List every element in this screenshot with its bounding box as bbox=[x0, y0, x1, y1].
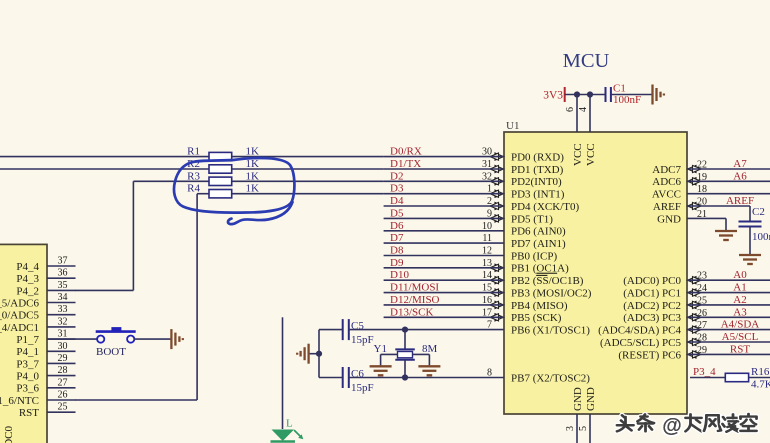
svg-text:35: 35 bbox=[58, 280, 68, 291]
svg-text:PD5 (T1): PD5 (T1) bbox=[511, 213, 553, 225]
svg-text:C5: C5 bbox=[351, 320, 364, 332]
svg-text:AREF: AREF bbox=[653, 201, 681, 213]
svg-text:D8: D8 bbox=[390, 245, 404, 257]
svg-text:4: 4 bbox=[578, 107, 589, 112]
svg-text:PB4 (MISO): PB4 (MISO) bbox=[511, 300, 568, 312]
svg-text:D13/SCK: D13/SCK bbox=[390, 306, 433, 318]
svg-text:25: 25 bbox=[58, 402, 68, 413]
svg-text:15pF: 15pF bbox=[351, 334, 374, 346]
svg-text:P1_6/NTC: P1_6/NTC bbox=[0, 395, 39, 407]
svg-text:PB6 (X1/TOSC1): PB6 (X1/TOSC1) bbox=[511, 325, 590, 337]
svg-text:30: 30 bbox=[58, 341, 68, 352]
svg-text:@: @ bbox=[662, 415, 682, 437]
svg-text:BOOT: BOOT bbox=[96, 346, 126, 358]
svg-text:AVCC: AVCC bbox=[652, 189, 681, 201]
svg-text:PD6 (AIN0): PD6 (AIN0) bbox=[511, 226, 566, 238]
svg-text:P1_5/ADC6: P1_5/ADC6 bbox=[0, 297, 39, 309]
svg-text:(ADC4/SDA) PC4: (ADC4/SDA) PC4 bbox=[598, 325, 681, 337]
svg-text:D10: D10 bbox=[390, 269, 409, 281]
svg-text:GND: GND bbox=[585, 387, 597, 411]
svg-text:PB2 (SS/OC1B): PB2 (SS/OC1B) bbox=[511, 275, 584, 287]
svg-text:PD7 (AIN1): PD7 (AIN1) bbox=[511, 238, 566, 250]
svg-text:P4_0: P4_0 bbox=[16, 371, 39, 383]
svg-text:32: 32 bbox=[58, 316, 68, 327]
svg-text:L: L bbox=[286, 418, 293, 430]
svg-text:PD2(INT0): PD2(INT0) bbox=[511, 176, 562, 188]
svg-text:PB5 (SCK): PB5 (SCK) bbox=[511, 312, 562, 324]
svg-text:D2: D2 bbox=[390, 170, 403, 182]
svg-text:P1_7: P1_7 bbox=[16, 334, 39, 346]
svg-text:RST: RST bbox=[19, 407, 39, 419]
svg-text:P3_7: P3_7 bbox=[16, 358, 39, 370]
svg-text:P4_4: P4_4 bbox=[16, 261, 39, 273]
svg-text:1K: 1K bbox=[246, 183, 260, 195]
svg-text:P4_3: P4_3 bbox=[16, 273, 39, 285]
svg-text:26: 26 bbox=[58, 390, 68, 401]
svg-text:5: 5 bbox=[578, 426, 589, 431]
svg-text:P1_4/ADC1: P1_4/ADC1 bbox=[0, 322, 39, 334]
svg-text:PB7 (X2/TOSC2): PB7 (X2/TOSC2) bbox=[511, 372, 590, 384]
svg-text:R4: R4 bbox=[187, 183, 200, 195]
svg-text:C2: C2 bbox=[752, 206, 765, 218]
svg-text:1K: 1K bbox=[246, 146, 260, 158]
svg-text:C1: C1 bbox=[613, 83, 626, 95]
svg-text:1K: 1K bbox=[246, 170, 260, 182]
svg-text:PB0 (ICP): PB0 (ICP) bbox=[511, 250, 557, 262]
svg-text:GND: GND bbox=[572, 387, 584, 411]
svg-text:P4_2: P4_2 bbox=[16, 285, 39, 297]
svg-text:4.7K: 4.7K bbox=[751, 379, 770, 391]
svg-text:P4_1: P4_1 bbox=[16, 346, 39, 358]
svg-text:PB3 (MOSI/OC2): PB3 (MOSI/OC2) bbox=[511, 288, 592, 300]
svg-text:D11/MOSI: D11/MOSI bbox=[390, 282, 439, 294]
svg-text:P3_6: P3_6 bbox=[16, 383, 39, 395]
svg-text:PD0 (RXD): PD0 (RXD) bbox=[511, 152, 564, 164]
svg-text:D4: D4 bbox=[390, 195, 404, 207]
svg-text:GND: GND bbox=[657, 213, 681, 225]
svg-text:D5: D5 bbox=[390, 207, 404, 219]
svg-text:(RESET) PC6: (RESET) PC6 bbox=[618, 349, 681, 361]
svg-text:C6: C6 bbox=[351, 368, 364, 380]
svg-text:(ADC2) PC2: (ADC2) PC2 bbox=[623, 300, 681, 312]
svg-text:29: 29 bbox=[58, 353, 68, 364]
svg-text:PB1 (OC1A): PB1 (OC1A) bbox=[511, 263, 569, 275]
svg-text:R3: R3 bbox=[187, 170, 200, 182]
svg-text:ADC6: ADC6 bbox=[652, 176, 681, 188]
svg-text:100n: 100n bbox=[752, 231, 770, 243]
svg-text:PD1 (TXD): PD1 (TXD) bbox=[511, 164, 564, 176]
svg-text:37: 37 bbox=[58, 256, 68, 267]
svg-text:15pF: 15pF bbox=[351, 382, 374, 394]
svg-text:(ADC3) PC3: (ADC3) PC3 bbox=[623, 312, 681, 324]
svg-text:D6: D6 bbox=[390, 220, 404, 232]
svg-text:36: 36 bbox=[58, 268, 68, 279]
svg-text:8M: 8M bbox=[422, 343, 438, 355]
svg-text:U1: U1 bbox=[506, 120, 519, 132]
svg-text:ADC7: ADC7 bbox=[652, 164, 681, 176]
svg-text:3V3: 3V3 bbox=[543, 90, 563, 102]
svg-text:P3_4: P3_4 bbox=[693, 366, 716, 378]
svg-text:Y1: Y1 bbox=[374, 343, 387, 355]
svg-text:31: 31 bbox=[58, 329, 68, 340]
svg-text:6: 6 bbox=[565, 107, 576, 112]
svg-text:R1: R1 bbox=[187, 146, 200, 158]
svg-text:33: 33 bbox=[58, 304, 68, 315]
svg-text:P1_0/ADC0: P1_0/ADC0 bbox=[3, 426, 15, 443]
svg-text:PD4 (XCK/T0): PD4 (XCK/T0) bbox=[511, 201, 579, 213]
svg-text:(ADC5/SCL) PC5: (ADC5/SCL) PC5 bbox=[600, 337, 681, 349]
svg-text:28: 28 bbox=[58, 365, 68, 376]
svg-text:27: 27 bbox=[58, 377, 68, 388]
svg-text:PD3 (INT1): PD3 (INT1) bbox=[511, 189, 565, 201]
svg-text:100nF: 100nF bbox=[613, 94, 641, 106]
svg-text:(ADC0) PC0: (ADC0) PC0 bbox=[623, 275, 681, 287]
svg-text:D7: D7 bbox=[390, 232, 404, 244]
svg-text:34: 34 bbox=[58, 292, 68, 303]
svg-text:3: 3 bbox=[565, 426, 576, 431]
svg-text:VCC: VCC bbox=[585, 143, 597, 166]
svg-text:D12/MISO: D12/MISO bbox=[390, 294, 440, 306]
svg-text:P1_0/ADC5: P1_0/ADC5 bbox=[0, 310, 39, 322]
svg-text:D3: D3 bbox=[390, 183, 404, 195]
svg-text:(ADC1) PC1: (ADC1) PC1 bbox=[623, 288, 681, 300]
svg-text:MCU: MCU bbox=[563, 50, 610, 72]
svg-text:D1/TX: D1/TX bbox=[390, 158, 421, 170]
svg-text:D9: D9 bbox=[390, 257, 404, 269]
svg-text:VCC: VCC bbox=[572, 143, 584, 166]
svg-text:R16: R16 bbox=[751, 366, 770, 378]
svg-text:D0/RX: D0/RX bbox=[390, 146, 422, 158]
